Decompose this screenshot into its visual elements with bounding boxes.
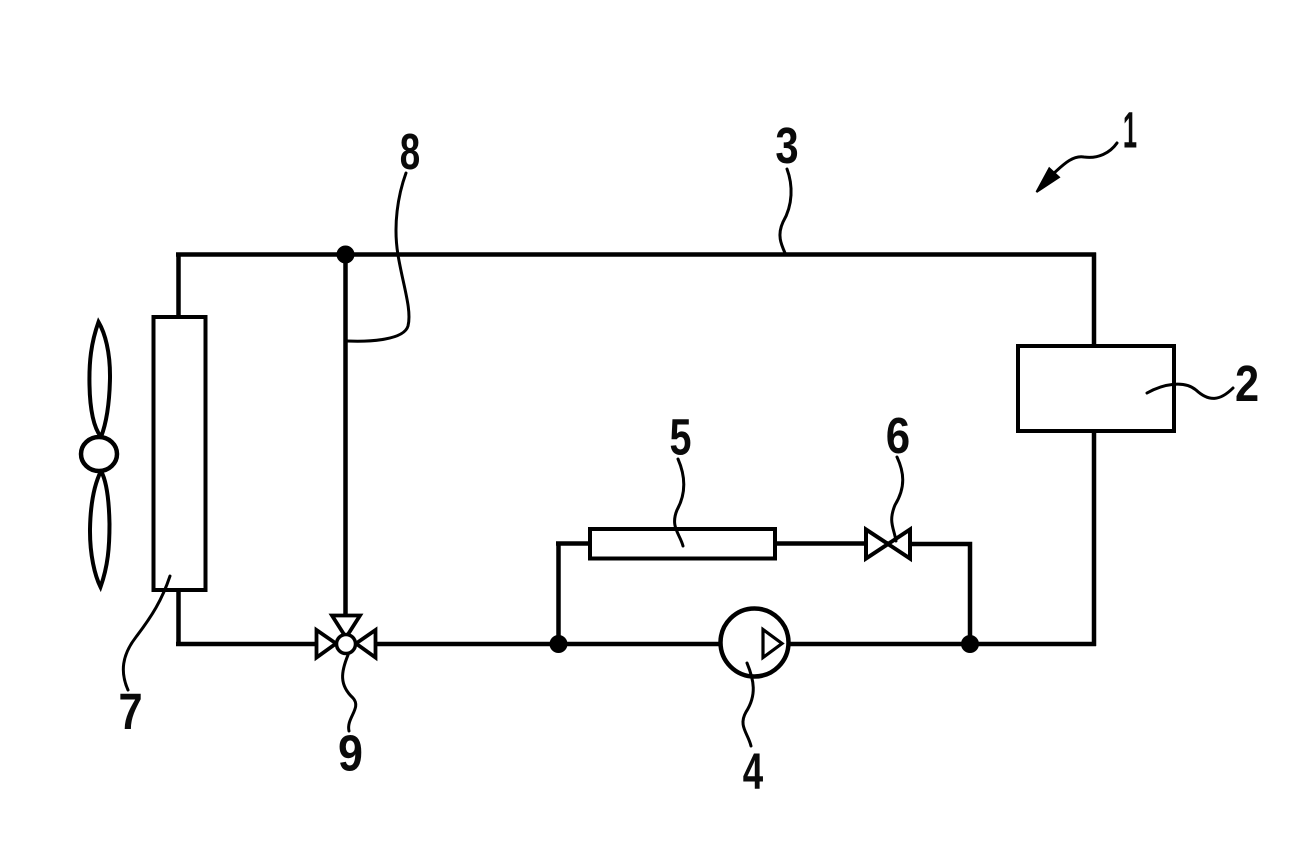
arrowhead for 1 xyxy=(1037,168,1059,192)
wire bottom main xyxy=(176,642,1096,647)
wire top main (3) xyxy=(176,252,1096,257)
wire bypass vertical from node to valve 9 xyxy=(343,254,348,618)
wire to heater 5 xyxy=(556,541,592,546)
fan blade upper xyxy=(89,322,110,437)
wire radiator top stub xyxy=(176,256,181,318)
svg-text:4: 4 xyxy=(743,744,764,800)
radiator 7 xyxy=(154,317,206,590)
leader line for 5 xyxy=(675,459,684,546)
svg-text:7: 7 xyxy=(118,684,142,741)
fan hub xyxy=(81,437,117,471)
leader line for 6 xyxy=(892,457,903,541)
heater rect 5 xyxy=(590,529,775,559)
wire radiator bottom stub xyxy=(176,589,181,644)
three-way valve 9 right triangle xyxy=(356,630,376,658)
valve 6 left triangle xyxy=(866,530,888,559)
wire heater 5 to valve 6 xyxy=(773,541,888,546)
svg-text:5: 5 xyxy=(670,409,692,466)
svg-text:9: 9 xyxy=(338,726,363,782)
svg-text:3: 3 xyxy=(775,117,798,174)
leader line for 1 xyxy=(1053,143,1117,174)
svg-text:8: 8 xyxy=(400,124,420,180)
valve 6 right triangle xyxy=(888,530,910,559)
leader line for 4 xyxy=(743,663,753,746)
wire sub-loop left vertical xyxy=(556,544,561,647)
pump 4 circle xyxy=(721,609,789,677)
node junction dot bottom left xyxy=(550,635,568,653)
three-way valve 9 center circle xyxy=(337,635,356,654)
leader line for 3 xyxy=(780,169,791,253)
svg-text:2: 2 xyxy=(1235,356,1259,413)
leader line for 2 xyxy=(1147,384,1233,398)
wire right vertical xyxy=(1092,253,1097,647)
node junction dot top xyxy=(337,246,355,264)
wire valve 6 to right corner and down xyxy=(888,544,970,646)
svg-text:1: 1 xyxy=(1123,102,1137,159)
leader line for 7 xyxy=(123,576,170,690)
svg-text:6: 6 xyxy=(886,408,910,465)
fan blade lower xyxy=(90,471,110,587)
node junction dot bottom right xyxy=(961,635,979,653)
pump 4 triangle xyxy=(763,630,782,658)
leader line for 8 xyxy=(347,173,409,341)
leader line for 9 xyxy=(343,655,356,731)
three-way valve 9 left triangle xyxy=(317,630,337,658)
three-way valve 9 top triangle xyxy=(332,616,360,638)
component box 2 xyxy=(1018,346,1174,431)
